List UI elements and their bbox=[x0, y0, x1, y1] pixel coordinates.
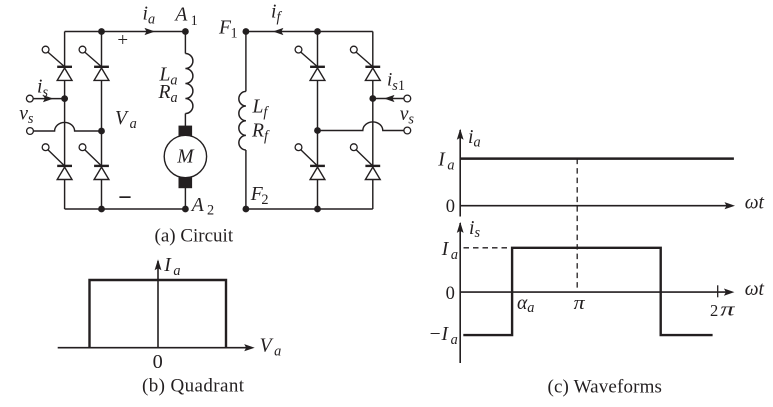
wire: is lead bbox=[33, 98, 64, 100]
node A1 bbox=[182, 28, 189, 35]
arrow: ia current bbox=[145, 28, 156, 35]
wire: vs lead with crossover hop bbox=[33, 122, 101, 131]
waveform ia constant level bbox=[460, 157, 734, 160]
wire: armature bridge right leg bbox=[101, 32, 103, 210]
axis: wt horizontal (waveform 1) bbox=[460, 205, 730, 207]
wire: armature bridge bottom rail bbox=[65, 208, 186, 210]
thyristor T4 bbox=[79, 144, 109, 180]
svg-text:(c) Waveforms: (c) Waveforms bbox=[548, 376, 663, 397]
node A2 bbox=[182, 206, 189, 213]
node: is junction bbox=[61, 95, 68, 102]
wire: field coil to F2 bbox=[245, 150, 247, 209]
node F2 bbox=[243, 206, 250, 213]
wire: F1 down to field coil bbox=[245, 32, 247, 92]
wire: armature bridge left leg bbox=[64, 32, 66, 210]
svg-text:π: π bbox=[574, 293, 586, 314]
node: vs junction bbox=[98, 128, 105, 135]
axis: Ia vertical (quadrant) bbox=[157, 261, 159, 348]
svg-text:(b) Quadrant: (b) Quadrant bbox=[142, 376, 245, 397]
wire: coil to motor bbox=[184, 114, 186, 129]
thyristor T8 bbox=[350, 144, 380, 180]
svg-text:0: 0 bbox=[446, 284, 455, 304]
axis: ia vertical (waveform 1) bbox=[459, 130, 461, 217]
thyristor T2 bbox=[79, 46, 109, 80]
quadrant operating region rectangle bbox=[90, 280, 227, 348]
wire: field bridge top rail bbox=[246, 31, 373, 33]
wire: is1 lead bbox=[373, 98, 404, 100]
axis: wt horizontal (waveform 2) bbox=[460, 291, 729, 293]
wire: vs field lead with crossover hop bbox=[318, 122, 404, 131]
thyristor T1 bbox=[42, 46, 72, 80]
svg-text:M: M bbox=[176, 147, 195, 168]
svg-text:ωt: ωt bbox=[745, 279, 765, 300]
label − polarity bbox=[119, 196, 130, 198]
node: vs field junction bbox=[314, 127, 321, 134]
node: field top rail / left leg junction bbox=[314, 28, 321, 35]
svg-text:π: π bbox=[720, 300, 735, 321]
arrow: is1 current bbox=[384, 95, 395, 102]
thyristor T7 bbox=[295, 144, 325, 180]
node: top rail / right leg junction bbox=[98, 28, 105, 35]
source terminal vs bbox=[27, 128, 34, 135]
svg-text:0: 0 bbox=[446, 197, 455, 217]
thyristor T3 bbox=[42, 144, 72, 180]
node: is1 junction bbox=[369, 95, 376, 102]
axis: is vertical (waveform 2) bbox=[459, 223, 461, 363]
wire: motor to A2 bbox=[184, 188, 186, 210]
motor M bbox=[164, 126, 206, 189]
svg-text:ωt: ωt bbox=[745, 193, 765, 214]
thyristor T5 bbox=[295, 46, 325, 80]
inductor Lf / resistor Rf (field winding) bbox=[239, 91, 246, 150]
source terminal is bbox=[26, 95, 33, 102]
node F1 bbox=[243, 28, 250, 35]
inductor La / resistor Ra (armature) bbox=[185, 54, 193, 114]
source terminal is1 bbox=[404, 95, 411, 102]
wire: armature bridge top rail bbox=[65, 31, 186, 33]
source terminal vs (field) bbox=[404, 127, 411, 134]
dashed marker at pi bbox=[576, 159, 578, 293]
node: field bottom rail / left leg junction bbox=[314, 206, 321, 213]
waveform is square wave bbox=[463, 248, 712, 335]
svg-text:0: 0 bbox=[153, 351, 163, 373]
thyristor T6 bbox=[350, 46, 380, 80]
svg-text:2: 2 bbox=[710, 301, 718, 320]
wire: A1 down to armature coil bbox=[184, 32, 186, 54]
arrow: if current bbox=[273, 28, 284, 35]
node: bottom rail / right leg junction bbox=[98, 206, 105, 213]
svg-text:(a) Circuit: (a) Circuit bbox=[155, 225, 234, 246]
tick at 2pi bbox=[717, 285, 719, 297]
arrow: is current bbox=[43, 95, 54, 102]
svg-text:+: + bbox=[117, 30, 128, 51]
wire: field bridge bottom rail bbox=[246, 208, 373, 210]
wire: field bridge right leg bbox=[372, 32, 374, 210]
axis: Va horizontal (quadrant) bbox=[58, 347, 249, 349]
wire: field bridge left leg bbox=[317, 32, 319, 210]
dashed level line Ia (waveform 2) bbox=[464, 247, 513, 249]
